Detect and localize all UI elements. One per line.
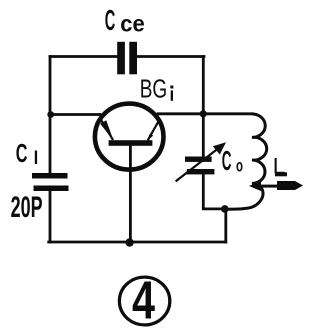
wire transistor base lead down [129,145,132,242]
wire from bottom-right junction down to bottom rail [224,209,227,242]
transistor BG1 circle [95,104,164,170]
transistor BG1 collector line [147,121,158,141]
capacitor C0 (variable) plates [185,157,214,175]
wire middle rail right (collector to tank) [158,112,253,115]
wire left vertical upper [49,57,52,174]
figure number circle [119,277,169,325]
output arrow pointing left into coil tap [249,172,303,191]
wire top rail left of Cce [50,55,117,58]
svg-text:C: C [222,145,232,176]
wire top rail right of Cce [137,55,204,58]
junction dot bottom base [125,238,133,246]
label BG1 subscript tick [170,86,173,101]
svg-text:C: C [105,5,116,37]
svg-text:BG: BG [140,73,168,103]
transistor BG1 base bar [109,140,153,146]
wire right vertical upper [202,57,205,157]
junction dot left middle [47,111,54,118]
junction dot right middle [200,110,207,117]
svg-text:ce: ce [120,11,145,37]
junction dot tank bottom [221,205,229,213]
wire left vertical lower [49,191,52,243]
capacitor Cce [117,42,137,75]
wire right vertical to C0 bottom and corner [203,175,225,209]
label C1 subscript tick [35,151,37,165]
transistor BG1 emitter line with arrow [100,120,113,140]
svg-text:o: o [236,155,243,175]
wire middle rail left (emitter to junction) [50,113,100,116]
capacitor C1 [32,173,69,191]
capacitor C0 arrow [176,142,226,181]
inductor L coil [226,114,267,209]
svg-text:4: 4 [132,271,155,331]
svg-text:20P: 20P [11,191,43,224]
wire bottom rail [49,241,226,244]
svg-text:C: C [16,140,28,168]
